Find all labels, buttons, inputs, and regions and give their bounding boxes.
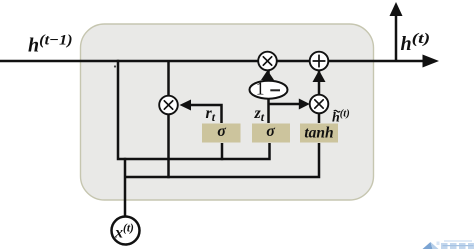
- svg-text:σ: σ: [266, 123, 275, 140]
- svg-text:tanh: tanh: [304, 125, 333, 142]
- svg-text:σ: σ: [217, 123, 226, 140]
- svg-text:1: 1: [256, 78, 265, 98]
